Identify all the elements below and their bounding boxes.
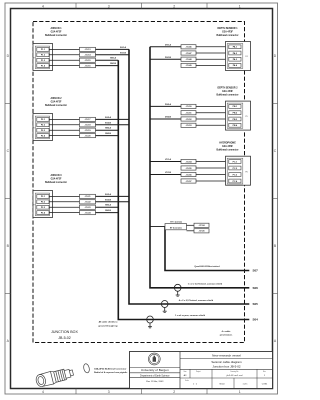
svg-text:Rev 11 Mar, 2003: Rev 11 Mar, 2003 [146,380,164,383]
svg-text:4: 4 [42,4,44,8]
svg-text:P4: P4 [245,56,247,58]
svg-text:S05: S05 [253,302,259,306]
wire pin P1.3 to terminal [49,59,80,61]
svg-text:-X1.56: -X1.56 [186,174,193,176]
terminal -X1.49 [181,63,196,67]
pictorial O-ring of connector [83,363,90,373]
svg-text:ST 1 (strain): ST 1 (strain) [170,220,182,223]
svg-text:P3: P3 [33,205,35,207]
svg-text:G2A-4F6F: G2A-4F6F [222,145,233,148]
terminal -X7.24 [194,223,209,227]
svg-text:University of Bergen: University of Bergen [141,368,169,372]
terminal -X1.46 [181,45,196,49]
pin PA.2 [229,51,241,55]
wire terminal to pin PA.3 [196,58,229,60]
svg-text:ST 2 (strain): ST 2 (strain) [170,226,182,229]
wire trunk V3: depth sensor / hydrophone bus down to node S06 [150,47,249,288]
svg-text:4: 4 [42,390,44,394]
terminal -X7.25 [194,229,209,233]
pin P3.4 [37,211,49,215]
wire SG2.B to trunk V1 [96,122,130,125]
svg-text:1: 1 [239,4,241,8]
bulkhead connector P1 (AIRGUN 1) outer body [33,44,53,71]
cable glands note [220,330,233,337]
svg-text:Bulkhead connector: Bulkhead connector [45,34,67,37]
wire trunk V2: airgun sensor pairs bus down to node S04 [118,60,249,319]
size / file / rev cells [180,369,273,378]
svg-text:All cable shields to: All cable shields to [99,321,119,324]
svg-text:-X1.22: -X1.22 [85,202,92,204]
wire terminal to pin PB.1 [196,105,229,107]
svg-text:SG1.A: SG1.A [120,46,127,49]
svg-text:-X1.46: -X1.46 [186,46,193,49]
svg-text:-X1.48: -X1.48 [186,58,193,61]
wire SG1.B to trunk V1 [96,52,130,55]
airgun 2 group label [45,97,67,107]
svg-text:2: 2 [173,390,175,394]
svg-text:DS2.B: DS2.B [165,117,171,119]
wire terminal to pin PC.1 [196,161,229,163]
terminal -X1.17 [80,117,96,121]
terminal -X1.16 [80,64,96,68]
project title cell [180,353,273,358]
svg-text:-X1.21: -X1.21 [85,196,92,198]
svg-text:1 x w/t sq.mm, common shield: 1 x w/t sq.mm, common shield [175,314,206,317]
svg-text:SN2.A: SN2.A [105,127,111,130]
wire DS2.A from trunk [150,103,181,106]
zone tick marks right margin [273,103,278,105]
svg-text:2: 2 [173,4,175,8]
pin P2.1 [37,118,49,122]
wire pin P1.2 to terminal [49,54,80,56]
wire SN3.B to trunk V2 [96,210,119,213]
svg-text:SN1.A: SN1.A [110,57,116,60]
svg-text:AIRGUN 2: AIRGUN 2 [51,97,63,100]
pin PB.2 [229,111,241,115]
wire HY1.A from trunk [150,158,181,161]
svg-text:-X1.17: -X1.17 [85,119,92,121]
svg-text:P1: P1 [33,58,35,60]
svg-text:HYDROPHONE: HYDROPHONE [219,143,236,145]
svg-text:AIRGUN 1: AIRGUN 1 [51,27,63,30]
wire SN1.B to trunk V2 [96,63,119,66]
pin P3.3 [37,205,49,209]
svg-text:-X1.20: -X1.20 [85,135,92,137]
svg-text:-X7.25: -X7.25 [199,231,206,233]
svg-text:Size: Size [184,371,187,373]
svg-text:-X1.57: -X1.57 [186,181,193,183]
junction box designation label [51,330,78,340]
cable gland / shield ground tap on S05 [161,301,168,313]
svg-text:jb-5-02-rev1.vsd: jb-5-02-rev1.vsd [226,374,244,377]
pin PB.1 [229,105,241,109]
terminal -X1.51 [181,111,196,115]
wire pin P3.3 to terminal [49,206,80,208]
svg-text:G2A-4F2F: G2A-4F2F [51,177,62,180]
wire pin P2.2 to terminal [49,124,80,126]
svg-text:DS1.A: DS1.A [165,44,171,47]
svg-text:-X7.24: -X7.24 [199,224,206,227]
svg-text:AIRGUN 3: AIRGUN 3 [51,174,63,177]
airgun 1 group label [45,27,67,37]
zone numbers top margin [42,4,241,8]
wire pin P2.1 to terminal [49,118,80,120]
svg-text:-X1.24: -X1.24 [85,211,92,214]
wire pin P2.3 to terminal [49,129,80,131]
pin P2.2 [37,123,49,127]
pin P2.3 [37,128,49,132]
terminal -X1.55 [181,166,196,170]
svg-text:Bulkhead connector: Bulkhead connector [216,149,238,152]
svg-text:JB-5-02: JB-5-02 [58,336,71,340]
svg-text:Radial of 4 exposed row pigtai: Radial of 4 exposed row pigtails [94,371,128,374]
scale / sheet cells [185,378,268,389]
svg-text:Sheet: Sheet [219,383,225,386]
wire SG3.A to trunk V1 [96,193,130,197]
wire trunk V1: airgun solenoid pairs bus down to node S05 [129,49,249,304]
pin PA.1 [229,45,241,49]
bulkhead connector P6 (HYDROPHONE) outer body [226,156,251,185]
zone numbers bottom margin [42,390,241,394]
wire terminal to pin PA.1 [196,46,229,48]
svg-text:-X1.13: -X1.13 [85,49,92,51]
svg-text:4 x cable: 4 x cable [222,330,232,333]
svg-text:-X1.54: -X1.54 [186,160,193,163]
wire pin P3.2 to terminal [49,201,80,203]
university name cell [130,368,181,373]
svg-text:SN3.A: SN3.A [105,204,111,207]
wire ST to terminal X7.24 [187,224,195,226]
pin P1.2 [37,53,49,57]
pin PA.3 [229,57,241,61]
shields-to-ground note [98,321,118,328]
university logo seal [148,353,160,365]
svg-text:Bulkhead connector: Bulkhead connector [45,181,67,184]
pin PB.4 [229,123,241,127]
drawing title cell [180,360,273,369]
wire pin P2.4 to terminal [49,135,80,137]
wire terminal to pin PB.4 [196,124,229,126]
svg-text:SG3.B: SG3.B [105,199,112,201]
svg-text:Seismic cable diagram: Seismic cable diagram [211,360,242,364]
terminal -X1.24 [80,211,96,215]
svg-text:S06: S06 [253,286,259,290]
inner border frame [11,9,273,389]
zone letters left margin [7,54,10,343]
bulkhead connector P2 (AIRGUN 2) outer body [33,114,53,141]
connector pictorial caption [94,368,128,375]
svg-text:4 x 2 x 0,5 Twisted, common sh: 4 x 2 x 0,5 Twisted, common shield [179,299,214,302]
wire terminal to pin PB.2 [196,112,229,114]
terminal -X1.21 [80,194,96,198]
terminal -X1.54 [181,159,196,163]
svg-text:-X1.16: -X1.16 [85,65,92,67]
svg-text:1 x 2 x 0,5 Twisted, common sh: 1 x 2 x 0,5 Twisted, common shield [188,283,223,286]
terminal -X1.15 [80,58,96,62]
wire SG1.A to trunk V1 [96,46,130,50]
terminal -X1.57 [181,179,196,183]
cable gland / shield ground tap on S06 [174,284,181,296]
cable gland / shield ground tap on S04 [147,316,154,328]
terminal -X1.52 [181,117,196,121]
wire terminal to pin PB.3 [196,118,229,120]
pin P1.3 [37,58,49,62]
HYDROPHONE group label [216,143,238,152]
svg-text:Rev: Rev [263,371,266,373]
svg-text:G2A-4F2F: G2A-4F2F [51,30,62,33]
svg-text:ground through tap: ground through tap [98,324,118,327]
svg-text:Bulkhead connector: Bulkhead connector [216,93,238,96]
wire terminal to pin PA.2 [196,52,229,54]
svg-text:JUNCTION BOX: JUNCTION BOX [51,330,78,334]
wire trunk V4: strain sensor bus down to node S07 [165,227,249,271]
pin P1.4 [37,64,49,68]
pin P1.1 [37,48,49,52]
wire terminal to pin PC.2 [196,167,229,169]
wire SG3.B to trunk V1 [96,199,130,202]
strain sensor ST2 box [165,224,187,230]
wire terminal to pin PC.3 [196,174,229,176]
svg-text:DEPTH SENSOR 1: DEPTH SENSOR 1 [217,28,238,30]
svg-text:G2A-4F3F: G2A-4F3F [222,90,233,93]
date cell [130,378,181,383]
svg-text:G2A-4F2F: G2A-4F2F [51,100,62,103]
terminal -X1.20 [80,134,96,138]
terminal -X1.47 [181,51,196,55]
svg-text:P6: P6 [245,171,247,173]
wire pin P3.4 to terminal [49,212,80,214]
pin PC.2 [229,166,241,170]
terminal -X1.50 [181,104,196,108]
pin P3.1 [37,195,49,199]
svg-text:-X1.23: -X1.23 [85,207,92,209]
terminal -X1.13 [80,47,96,51]
wire pin P3.1 to terminal [49,195,80,197]
svg-text:New research vessel: New research vessel [212,353,241,357]
wire DS1.A from trunk [150,44,181,47]
pin PC.1 [229,160,241,164]
bulkhead connector P4 (DEPTH SENSOR 1) outer body [226,42,251,71]
svg-text:S04: S04 [253,318,259,322]
wire terminal to pin PC.4 [196,180,229,182]
svg-text:-X1.14: -X1.14 [85,54,92,57]
svg-text:-X1.15: -X1.15 [85,60,92,62]
svg-text:G2A-4F3F: G2A-4F3F [222,30,233,33]
svg-text:-X1.53: -X1.53 [186,125,193,127]
terminal -X1.19 [80,128,96,132]
pin PC.3 [229,173,241,177]
wire SN2.B to trunk V2 [96,133,119,136]
svg-text:HY1.A: HY1.A [165,158,171,161]
zone tick marks bottom margin [75,389,77,395]
svg-text:CON1: CON1 [262,384,268,386]
wire pin P1.4 to terminal [49,65,80,67]
wire terminal to pin PA.4 [196,64,229,66]
svg-text:SN1.B: SN1.B [110,63,116,65]
svg-text:SG2.B: SG2.B [105,122,112,124]
title block left/right divider [179,352,181,389]
terminal -X1.14 [80,53,96,57]
svg-text:3: 3 [108,390,110,394]
pin PB.3 [229,117,241,121]
wire HY1.B from trunk [150,172,181,174]
svg-text:Scale: Scale [185,380,189,382]
pictorial drawing of G2A-4F2Z bulkhead connector [35,366,75,388]
svg-text:penetrations: penetrations [220,334,233,337]
pin P3.2 [37,200,49,204]
bulkhead connector P5 (DEPTH SENSOR 2) outer body [226,101,251,130]
terminal -X1.22 [80,200,96,204]
bulkhead connector P3 (AIRGUN 3) outer body [33,191,53,218]
svg-text:-X1.52: -X1.52 [186,119,193,121]
wire SN2.A to trunk V2 [96,127,119,131]
wire pin P1.1 to terminal [49,48,80,50]
svg-text:DEPTH SENSOR 2: DEPTH SENSOR 2 [217,87,238,89]
terminal -X1.53 [181,123,196,127]
svg-text:G2A-4F2Z Bulkhead Connector: G2A-4F2Z Bulkhead Connector [94,368,126,371]
svg-text:-X1.49: -X1.49 [186,64,193,67]
DEPTH SENSOR 1 group label [216,28,238,37]
wire DS2.B from trunk [150,117,181,119]
zone tick marks top margin [75,3,77,9]
zone letters right margin [274,54,277,343]
wire SN1.A to trunk V2 [96,57,119,61]
svg-text:DS2.A: DS2.A [165,103,171,106]
DEPTH SENSOR 2 group label [216,87,238,96]
title block outline [130,352,273,389]
svg-text:3: 3 [108,4,110,8]
wire SN3.A to trunk V2 [96,204,119,208]
svg-text:-X1.50: -X1.50 [186,106,193,108]
svg-text:-X1.18: -X1.18 [85,125,92,127]
zone tick marks left margin [5,103,11,105]
wire SG2.A to trunk V1 [96,116,130,120]
terminal -X1.56 [181,172,196,176]
pin PC.4 [229,179,241,183]
airgun 3 group label [45,174,67,184]
department cell [130,373,181,378]
svg-text:1: 1 [239,390,241,394]
wire ST to terminal X7.25 [187,230,195,232]
svg-text:Quad 600-02 Blue twisted: Quad 600-02 Blue twisted [194,265,220,268]
svg-text:-X1.55: -X1.55 [186,168,193,170]
pin PA.4 [229,64,241,68]
svg-text:Bulkhead connector: Bulkhead connector [216,34,238,37]
svg-text:-X1.47: -X1.47 [186,52,193,55]
wire DS1.B from trunk [150,57,181,59]
svg-text:1 of 1: 1 of 1 [242,384,248,386]
wire trunk V3 to ST box [150,226,165,228]
svg-text:SN2.B: SN2.B [105,133,111,135]
junction box JB-5-02 dashed enclosure boundary [33,22,245,343]
pin P2.4 [37,134,49,138]
terminal -X1.23 [80,205,96,209]
svg-text:Junction box JB-5-02: Junction box JB-5-02 [212,365,241,369]
svg-text:-X1.51: -X1.51 [186,113,193,115]
svg-text:DS1.B: DS1.B [165,57,171,59]
svg-text:SG2.A: SG2.A [105,116,112,119]
svg-text:S07: S07 [253,269,259,273]
svg-text:Bulkhead connector: Bulkhead connector [45,104,67,107]
svg-text:P5: P5 [245,116,247,118]
svg-text:SG3.A: SG3.A [105,193,112,196]
svg-text:SN3.B: SN3.B [105,210,111,212]
svg-text:-X1.19: -X1.19 [85,130,92,132]
terminal -X1.48 [181,57,196,61]
svg-text:HY1.B: HY1.B [165,172,171,174]
svg-text:SG1.B: SG1.B [120,52,127,54]
svg-text:Department of Earth Science: Department of Earth Science [140,375,170,378]
terminal -X1.18 [80,123,96,127]
svg-text:P2: P2 [33,128,35,130]
